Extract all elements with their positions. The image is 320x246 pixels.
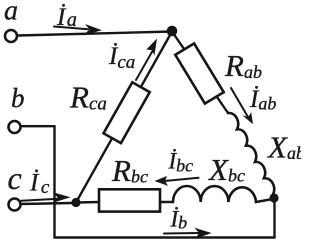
- wire b horizontal: [21, 125, 55, 127]
- svg-text:İa: İa: [56, 4, 77, 31]
- resistor Rab: [175, 43, 223, 103]
- bottom rail wire: [55, 236, 275, 238]
- inductor Xbc: [173, 186, 270, 202]
- inductor Xab: [228, 113, 274, 195]
- wire c to left node: [21, 203, 72, 204]
- svg-text:Xbc: Xbc: [207, 152, 245, 187]
- branch ca wire: [76, 32, 172, 203]
- resistor Rbc: [99, 189, 160, 211]
- wire left node to Rbc: [76, 201, 100, 204]
- terminal b: [9, 121, 21, 133]
- svg-text:İca: İca: [108, 43, 135, 73]
- svg-text:İc: İc: [29, 170, 50, 199]
- svg-text:İb: İb: [170, 207, 188, 233]
- current arrow Ibc: [155, 176, 199, 186]
- current arrow Ia: [54, 24, 102, 36]
- branch ab wire: [172, 32, 228, 114]
- right node junction: [269, 193, 278, 202]
- svg-text:İbc: İbc: [168, 149, 194, 176]
- current arrow Ica: [136, 39, 157, 81]
- svg-text:Rab: Rab: [224, 48, 262, 83]
- wire b vertical: [53, 126, 55, 237]
- wire right riser to node: [273, 198, 275, 238]
- svg-text:Rbc: Rbc: [111, 153, 148, 188]
- resistor Rca: [104, 82, 150, 143]
- wire a to top node: [18, 32, 173, 36]
- top node junction: [167, 26, 178, 37]
- svg-text:b: b: [11, 83, 25, 113]
- svg-text:İab: İab: [249, 86, 276, 114]
- current arrow Iab: [231, 88, 253, 124]
- svg-text:Rca: Rca: [69, 80, 107, 115]
- terminal c: [9, 199, 21, 211]
- svg-text:a: a: [4, 0, 18, 27]
- svg-text:Xab: Xab: [266, 130, 301, 165]
- svg-text:c: c: [8, 160, 22, 196]
- wire Rbc to Xbc: [160, 201, 173, 203]
- left node junction: [71, 198, 80, 207]
- current arrow Ib: [164, 228, 212, 239]
- terminal a: [5, 30, 17, 42]
- current arrow Ic: [21, 192, 71, 203]
